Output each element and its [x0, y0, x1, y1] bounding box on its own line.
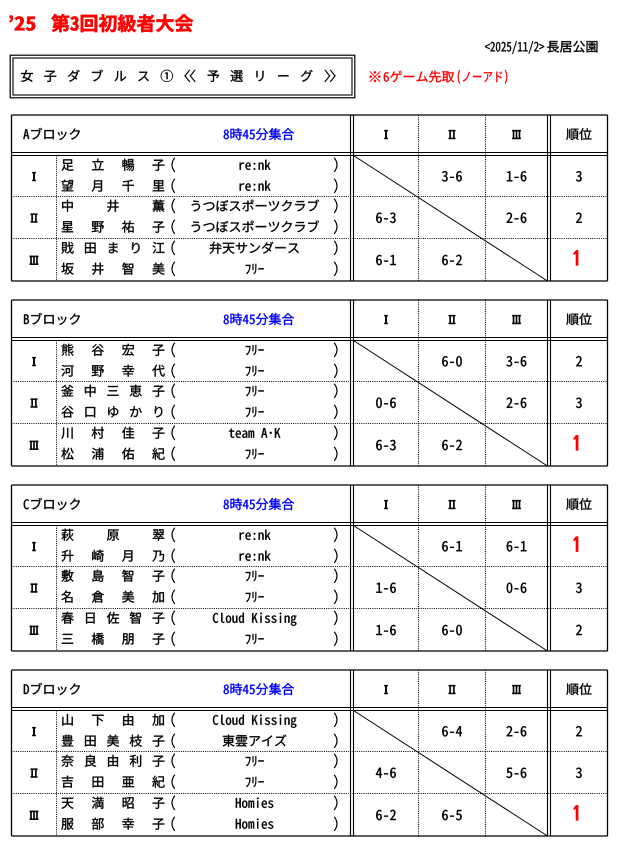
- table B header: [24, 314, 29, 324]
- event box title: [21, 70, 335, 82]
- title: [9, 15, 13, 22]
- date: [485, 41, 544, 54]
- table C diagonal: [354, 526, 548, 652]
- table B frame: [12, 299, 608, 301]
- table C frame: [12, 484, 608, 486]
- table D row Ⅰ: [32, 727, 35, 736]
- table A diagonal: [354, 156, 548, 282]
- table C header: [24, 499, 29, 509]
- table A row Ⅱ: [31, 214, 38, 223]
- table D row Ⅱ: [31, 769, 38, 778]
- table B diagonal: [354, 341, 548, 467]
- table A row Ⅰ: [32, 172, 35, 181]
- table D diagonal: [354, 711, 548, 837]
- event box: [10, 55, 355, 98]
- table B row Ⅰ: [32, 357, 35, 366]
- table B row Ⅱ: [31, 399, 38, 408]
- table C row Ⅰ: [32, 542, 35, 551]
- table A row Ⅲ: [30, 256, 39, 265]
- table A header: [23, 129, 29, 139]
- table C row Ⅲ: [30, 626, 39, 635]
- table C row Ⅱ: [31, 584, 38, 593]
- table B row Ⅲ: [30, 441, 39, 450]
- table D header: [24, 684, 29, 694]
- table D frame: [12, 669, 608, 671]
- table D row Ⅲ: [30, 811, 39, 820]
- table A frame: [12, 114, 608, 116]
- note: [370, 71, 381, 82]
